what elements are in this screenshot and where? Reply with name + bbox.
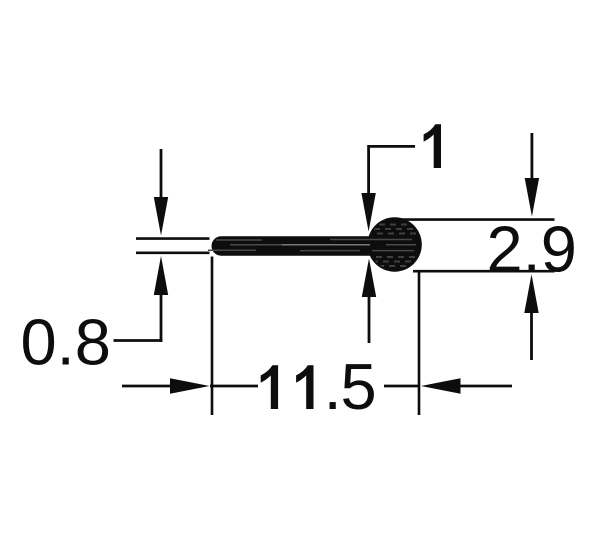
svg-text:.: . [324, 350, 342, 423]
dim 0.8: extension line bottom [136, 252, 210, 255]
dim 0.8: extension line top [136, 237, 210, 240]
dim 0.8: leader to text [114, 339, 163, 342]
dim 11.5: left tail line [122, 385, 172, 388]
svg-text:0.8: 0.8 [21, 306, 111, 379]
dim 0.8: upper arrowhead (down) [154, 197, 168, 236]
profile strip (tongue) [212, 236, 415, 256]
dim 1: lower arrowhead (up) [362, 259, 376, 298]
dim 2.9: upper arrow line [531, 133, 534, 179]
strip hatch streaks [208, 240, 416, 251]
bulb (round bead) [367, 217, 421, 271]
dim 11.5: right arrowhead (left) [421, 378, 461, 394]
svg-text:2.9: 2.9 [487, 213, 577, 286]
dim 1: value label [424, 124, 441, 168]
dim 2.9: extension line bottom [413, 270, 555, 273]
dim 2.9: value label [487, 213, 577, 286]
dim 2.9: extension line top [399, 218, 555, 221]
dim 11.5: extension line left [211, 257, 214, 416]
dim 2.9: lower arrowhead (up) [524, 274, 538, 313]
dim 11.5: inner right segment [384, 385, 420, 388]
dim 11.5: inner left segment [210, 385, 258, 388]
dim 1: upper arrowhead (down) [361, 193, 375, 232]
bulb hatch dashes [368, 225, 422, 267]
dim 11.5: left arrowhead (right) [170, 378, 210, 394]
dim 11.5: right tail line [460, 385, 512, 388]
dim 1: lower arrow line [368, 296, 371, 343]
dim 2.9: upper arrowhead (down) [525, 178, 539, 217]
dim 1: leader polyline [369, 146, 415, 194]
dim 2.9: lower arrow line [530, 312, 533, 360]
dim 0.8: upper arrow line [160, 149, 163, 198]
dim 11.5: value label [261, 350, 377, 423]
dim 0.8: lower arrow line [160, 294, 163, 342]
dim 0.8: value label [21, 306, 111, 379]
dim 11.5: extension line right [418, 272, 421, 415]
dim 0.8: lower arrowhead (up) [154, 256, 168, 295]
svg-text:5: 5 [341, 350, 377, 423]
